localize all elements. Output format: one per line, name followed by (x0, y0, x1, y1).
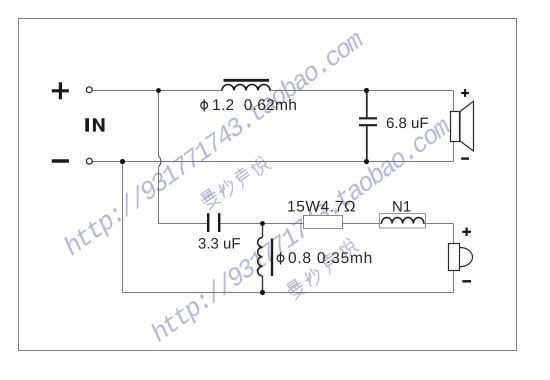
svg-text:N1: N1 (392, 199, 411, 216)
svg-text:1.2 0.62mh: 1.2 0.62mh (212, 97, 297, 114)
svg-text:0.8 0.35mh: 0.8 0.35mh (288, 250, 373, 267)
svg-text:6.8 uF: 6.8 uF (386, 115, 429, 132)
svg-text:3.3 uF: 3.3 uF (198, 235, 241, 252)
svg-text:15W4.7Ω: 15W4.7Ω (287, 199, 356, 216)
